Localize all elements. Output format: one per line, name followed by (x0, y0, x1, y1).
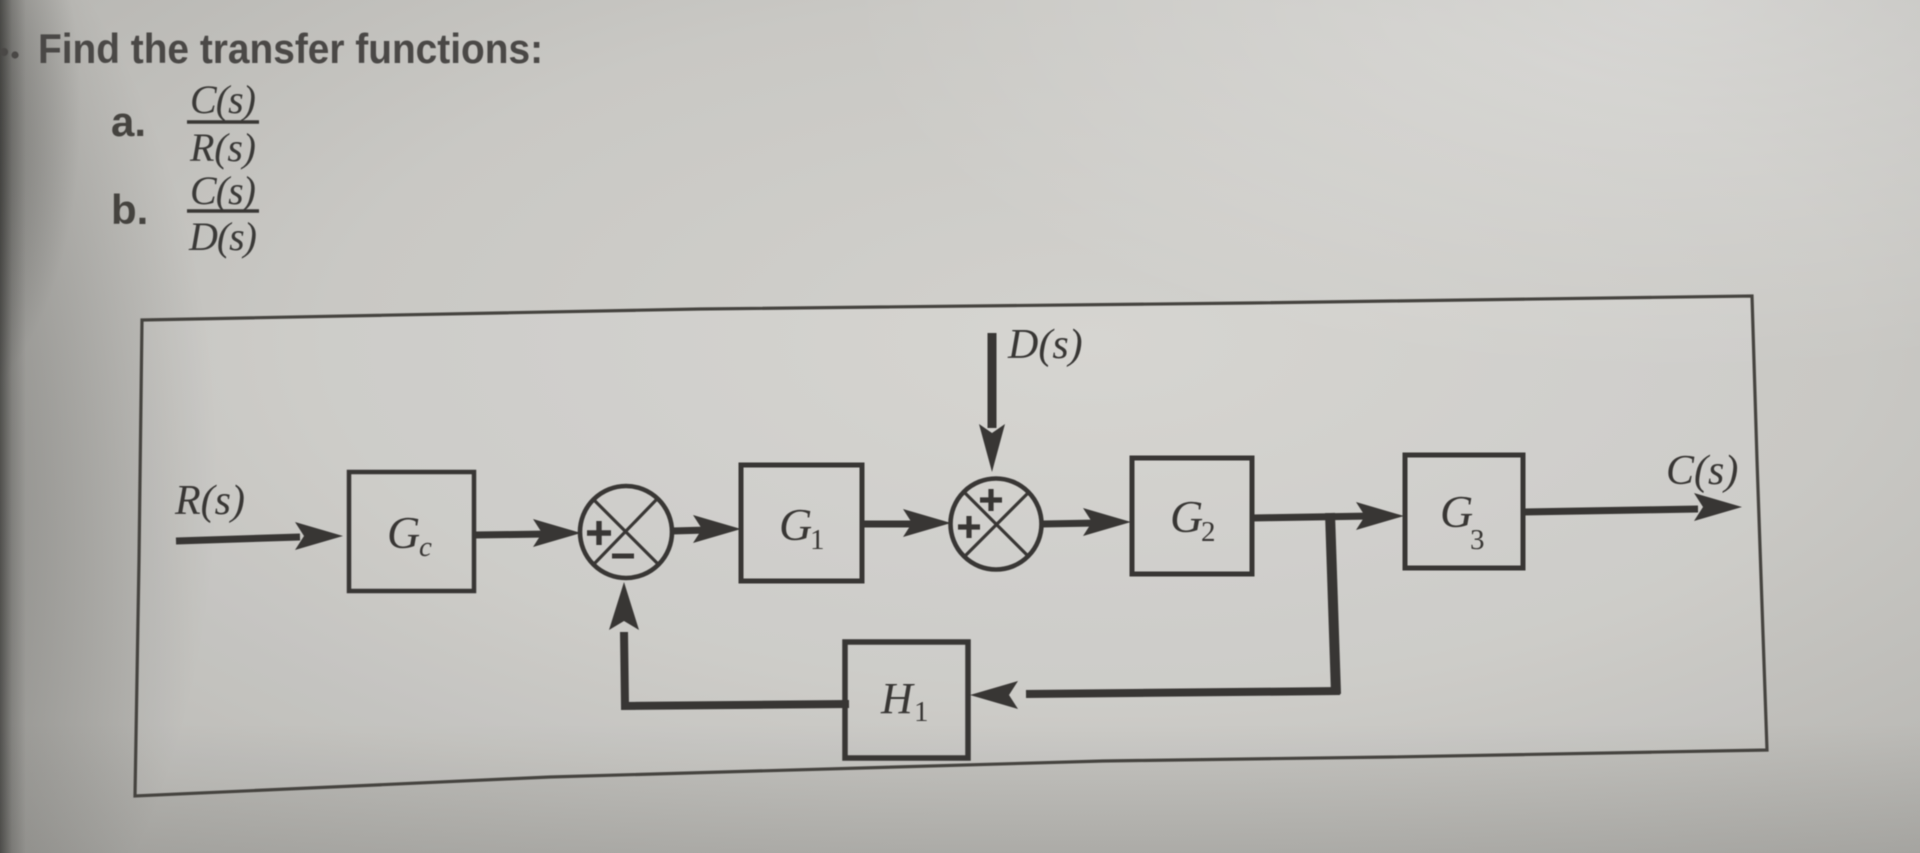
block Gc (349, 472, 474, 591)
block G1 (741, 465, 862, 581)
wire Gc to S1 (474, 534, 548, 535)
arrowhead into G3 (1356, 502, 1404, 530)
S1 cross diagonal / (594, 498, 658, 564)
label G1 (779, 499, 825, 556)
label G3 (1440, 486, 1485, 556)
label G2 (1170, 491, 1216, 548)
svg-text:D(s): D(s) (1007, 322, 1083, 368)
svg-text:1: 1 (810, 524, 825, 556)
wire D(s) down (988, 333, 997, 428)
branch node after G2 (1330, 513, 1336, 694)
S1 cross diagonal \ (593, 499, 659, 565)
fraction a bar (187, 120, 259, 124)
arrowhead into G1 (693, 515, 741, 543)
svg-text:G: G (387, 507, 420, 558)
svg-text:R(s): R(s) (174, 478, 245, 524)
arrowhead into Gc (295, 522, 343, 550)
block H1 (845, 642, 968, 758)
label H1 (880, 674, 929, 728)
svg-text:3: 3 (1470, 524, 1485, 556)
summing junction S2 (951, 479, 1042, 570)
wire G3 to output (1523, 509, 1698, 512)
S2 plus sign top (980, 489, 1002, 511)
arrowhead into G2 (1083, 508, 1131, 536)
svg-text:C(s): C(s) (190, 168, 256, 213)
leading dots (0, 48, 19, 59)
arrowhead D(s) into S2 (979, 424, 1005, 472)
svg-text:Find the transfer functions:: Find the transfer functions: (38, 25, 543, 72)
arrowhead into S1 (533, 519, 581, 547)
wire input to Gc (176, 537, 300, 541)
wire G2 to G3 (1252, 516, 1372, 518)
arrowhead into H1 (970, 681, 1018, 709)
summing junction S1 (580, 486, 672, 578)
svg-text:a.: a. (111, 98, 146, 145)
arrowhead up into S1 (609, 582, 639, 630)
arrowhead output C(s) (1694, 493, 1742, 521)
S2 cross diagonal \ (964, 492, 1028, 556)
wire S2 to G2 (1042, 523, 1098, 524)
S1 minus sign (612, 554, 634, 559)
S2 plus sign left (958, 516, 980, 538)
wire G1 to S2 (862, 521, 918, 528)
svg-text:b.: b. (111, 186, 148, 233)
svg-text:C(s): C(s) (190, 77, 256, 122)
wire H1 to left corner (624, 632, 849, 706)
fraction b bar (187, 209, 259, 213)
svg-text:2: 2 (1201, 516, 1216, 548)
label Gc (387, 507, 432, 563)
svg-text:C(s): C(s) (1666, 448, 1738, 494)
svg-text:G: G (1170, 491, 1203, 542)
svg-text:1: 1 (914, 696, 929, 728)
arrowhead into S2 (903, 509, 951, 537)
S1 plus sign (587, 521, 611, 545)
wire feedback right horizontal (1026, 691, 1340, 694)
svg-text:c: c (419, 531, 432, 563)
svg-text:D(s): D(s) (188, 214, 257, 259)
block G3 (1405, 455, 1523, 568)
svg-text:G: G (1440, 486, 1473, 537)
block G2 (1132, 458, 1252, 574)
svg-text:R(s): R(s) (189, 125, 256, 170)
svg-text:H: H (880, 674, 915, 723)
svg-text:G: G (779, 499, 812, 550)
wire S1 to G1 (672, 530, 708, 531)
S2 cross diagonal / (965, 492, 1029, 556)
